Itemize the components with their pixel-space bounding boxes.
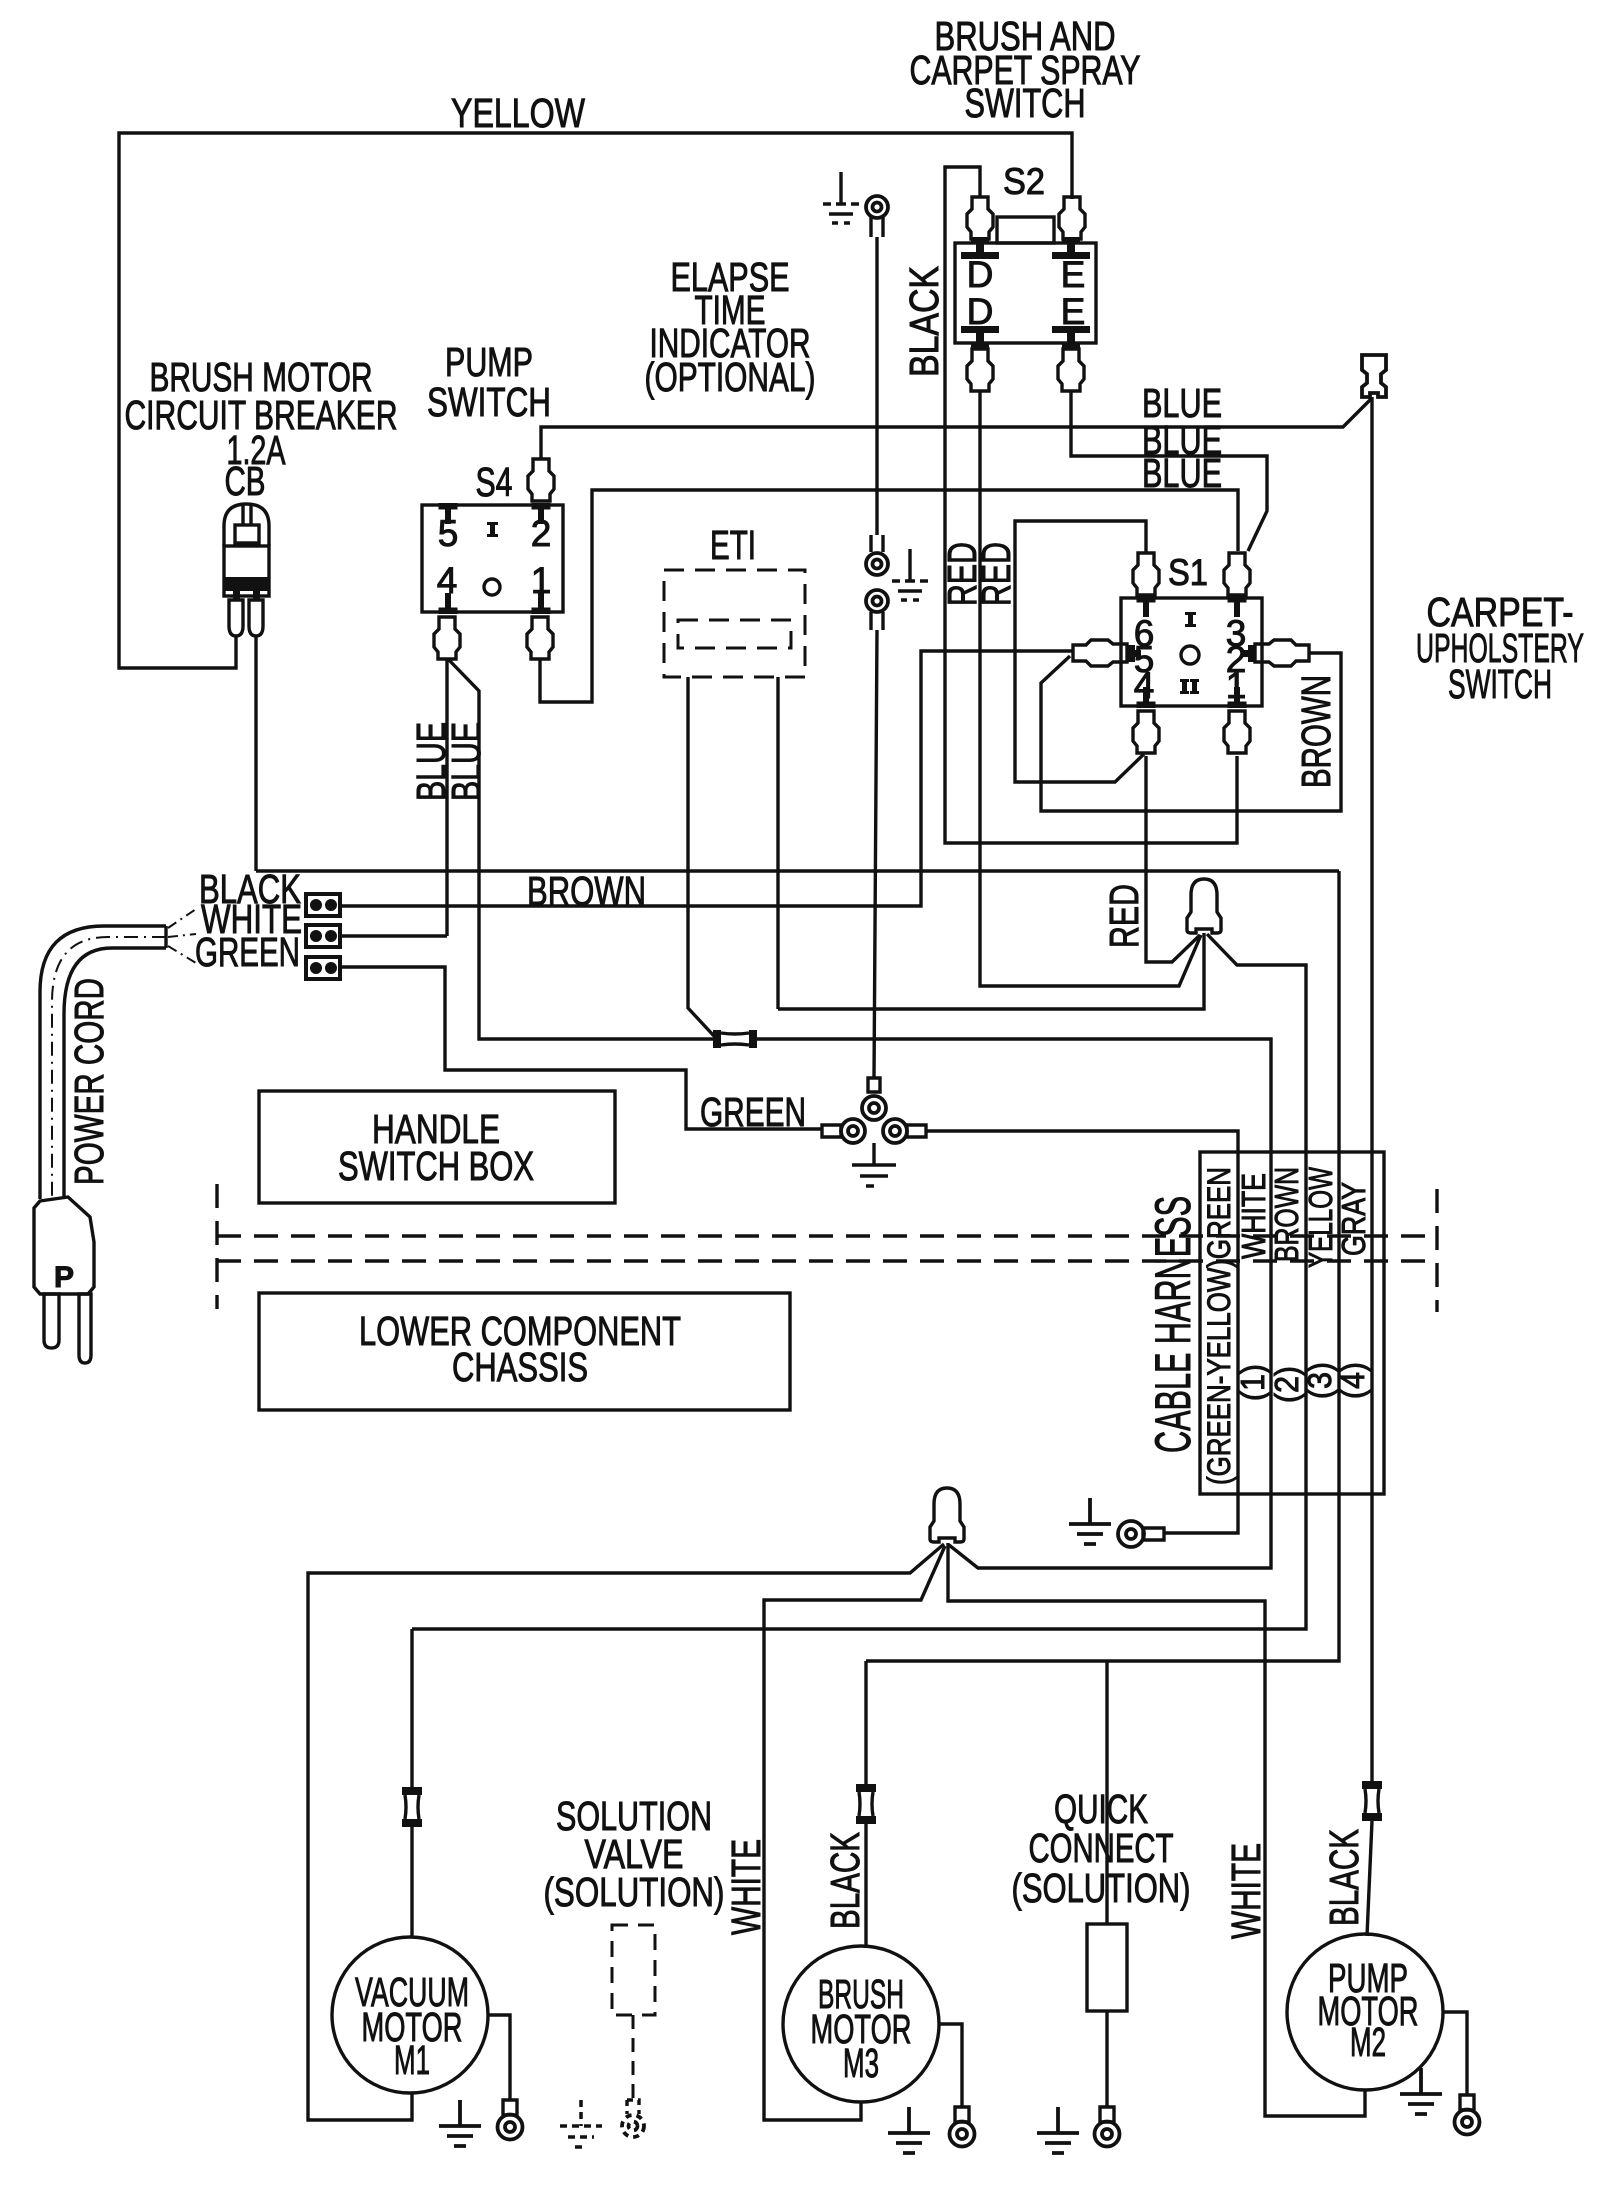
- wire M2 right lead to lug: [1442, 2012, 1467, 2095]
- splice on blue wire: [713, 1030, 757, 1048]
- solution valve dashed wire: [632, 2015, 635, 2100]
- svg-text:(SOLUTION): (SOLUTION): [544, 1869, 725, 1915]
- M2 output ring lug: [1455, 2095, 1480, 2135]
- connector top right (blue/gray junction): [1362, 355, 1386, 397]
- svg-text:CHASSIS: CHASSIS: [452, 1344, 588, 1390]
- svg-text:GREEN: GREEN: [195, 929, 300, 975]
- svg-text:D: D: [967, 291, 994, 332]
- wire red loop pin6: [1015, 521, 1146, 782]
- svg-text:BROWN: BROWN: [527, 868, 646, 914]
- wire nut lead to ETI loop: [778, 933, 1204, 1009]
- svg-text:S4: S4: [476, 459, 513, 505]
- circuit breaker CB: [224, 504, 269, 636]
- pump motor M2: [1287, 1934, 1443, 2090]
- ring lug top (near S2): [866, 196, 888, 237]
- svg-text:5: 5: [438, 513, 459, 554]
- wire junction right lug to harness green-yellow: [926, 1131, 1238, 1533]
- svg-text:BROWN: BROWN: [1268, 1167, 1305, 1262]
- S4 pin4 connector below: [434, 617, 460, 659]
- S1 pin6 top connector: [1133, 553, 1159, 595]
- S1 pin5 left connector: [1073, 640, 1127, 666]
- wire white row to S4 blue: [340, 934, 447, 937]
- svg-text:SWITCH: SWITCH: [965, 80, 1086, 126]
- svg-text:4: 4: [437, 560, 458, 601]
- svg-text:M1: M1: [394, 2037, 430, 2083]
- wire ETI right lead: [776, 677, 779, 1009]
- S4 pin 4 terminal: [439, 593, 458, 614]
- svg-text:GRAY: GRAY: [1335, 1182, 1372, 1256]
- S1 pin4 terminal: [1137, 687, 1156, 708]
- wire S1 pin4 bottom to nut: [1146, 756, 1200, 962]
- svg-text:M2: M2: [1350, 2019, 1386, 2065]
- S2 D bottom connector: [967, 349, 993, 391]
- wire S4 pin4 blue right down: [449, 660, 714, 1039]
- svg-text:BLUE: BLUE: [443, 722, 489, 801]
- svg-text:(1): (1): [1234, 1364, 1271, 1401]
- wire S2 D bottom red: [980, 392, 1201, 986]
- wire YELLOW top bus: [119, 133, 1072, 668]
- S2 terminal E top: [1052, 237, 1090, 259]
- svg-text:BLACK: BLACK: [822, 1832, 868, 1929]
- wire gray long vertical: [1370, 397, 1373, 1781]
- svg-text:SWITCH: SWITCH: [1448, 661, 1552, 707]
- svg-text:SWITCH: SWITCH: [427, 379, 551, 425]
- S1 marking II: [1180, 679, 1199, 694]
- M2 inline connector: [1362, 1781, 1382, 1821]
- M1 inline connector: [402, 1787, 422, 1827]
- solution valve dashed ground: [560, 2100, 602, 2147]
- ground junction earth stub: [852, 1143, 896, 1186]
- ground junction three ring lugs: [822, 1078, 926, 1143]
- S2 terminal E bottom: [1052, 326, 1090, 348]
- svg-text:ETI: ETI: [710, 522, 756, 568]
- wire quick connect tap: [1105, 1661, 1108, 1924]
- S2 E bottom connector: [1058, 349, 1084, 391]
- chassis boundary dashed lines: [215, 1184, 218, 1309]
- M3 output ring lug: [950, 2107, 975, 2147]
- wire M3 connector to motor: [864, 1824, 867, 1948]
- wire green row to ground junction: [340, 967, 822, 1129]
- S1 pin1 terminal: [1228, 687, 1247, 708]
- svg-text:(4): (4): [1334, 1362, 1371, 1399]
- svg-text:(3): (3): [1301, 1362, 1338, 1399]
- S4 pin 2 terminal: [532, 503, 551, 524]
- wire M3 right lead to lug: [938, 2024, 962, 2107]
- wire M1 feed from harness yellow: [410, 1629, 413, 1787]
- terminal block: [306, 894, 340, 979]
- wire ring pair down to ground junction: [874, 630, 877, 1078]
- M2 earth ground: [1400, 2068, 1442, 2114]
- svg-text:S1: S1: [1168, 552, 1208, 593]
- wire harness brown leg: [866, 871, 1339, 1661]
- wire quick connect to lug: [1105, 2011, 1108, 2107]
- svg-text:P: P: [54, 1261, 74, 1294]
- wire M1 right lead to lug: [488, 2015, 510, 2100]
- chassis ground top (near S2): [823, 172, 859, 223]
- svg-text:YELLOW: YELLOW: [1302, 1166, 1339, 1268]
- wire M3 feed from harness gray leg: [864, 1661, 867, 1785]
- wire nut upper: [1187, 879, 1221, 933]
- svg-text:GREEN: GREEN: [700, 1089, 806, 1135]
- wire black power to S1 pin5: [340, 651, 1072, 906]
- power cord: [40, 926, 166, 1199]
- svg-text:BLACK: BLACK: [901, 266, 947, 377]
- S1 pin1 bottom connector: [1224, 711, 1250, 753]
- QC earth ground: [1037, 2107, 1079, 2153]
- handle switch box: [259, 1091, 615, 1203]
- wire M2 connector to motor: [1367, 1821, 1372, 1936]
- switch S4 pump switch: [422, 505, 563, 612]
- chassis ground mid (right of ring pair): [892, 549, 928, 600]
- switch S1 carpet-upholstery switch: [1121, 598, 1262, 706]
- svg-text:1: 1: [531, 560, 552, 601]
- wire S2 D top jog black: [945, 167, 1237, 843]
- S4 marking I: [490, 522, 495, 537]
- leader dashes cord to labels: [168, 909, 196, 963]
- svg-text:BLUE: BLUE: [1142, 450, 1222, 496]
- M1 output ring lug: [498, 2100, 523, 2140]
- svg-text:D: D: [967, 254, 994, 295]
- vacuum motor M1: [332, 1937, 488, 2093]
- S4 pin 1 terminal: [532, 593, 551, 614]
- wire nut lower (white splice): [930, 1488, 964, 1542]
- svg-text:RED: RED: [1101, 884, 1147, 948]
- wire ETI left lead: [688, 677, 714, 1036]
- wire ground lug down to ring pair: [875, 237, 878, 535]
- S1 pin5 terminal: [1127, 645, 1141, 662]
- svg-text:E: E: [1061, 254, 1086, 295]
- svg-text:M3: M3: [843, 2040, 879, 2086]
- S1 marking I: [1188, 612, 1193, 627]
- QC output ring lug: [1095, 2107, 1120, 2147]
- S2 terminal D bottom: [961, 326, 999, 348]
- S4 pin 5 terminal: [439, 503, 458, 524]
- svg-text:BROWN: BROWN: [1293, 675, 1339, 788]
- svg-text:(GREEN-YELLOW)GREEN: (GREEN-YELLOW)GREEN: [1201, 1167, 1237, 1485]
- S2 terminal D top: [961, 237, 999, 259]
- svg-text:YELLOW: YELLOW: [451, 90, 585, 136]
- switch S2 brush and carpet spray switch: [955, 243, 1096, 343]
- brush motor M3: [783, 1946, 939, 2102]
- wire S4 pin4 blue left down: [445, 660, 448, 936]
- solution valve dashed ring lug: [622, 2100, 644, 2137]
- svg-text:WHITE: WHITE: [1235, 1173, 1272, 1259]
- svg-text:CABLE HARNESS: CABLE HARNESS: [1145, 1196, 1201, 1453]
- power plug P: [34, 1197, 94, 1363]
- wire S4 pin1 to S1 pin3: [540, 490, 1238, 702]
- wire brown loop pin2 to pin5: [1041, 653, 1341, 811]
- ring terminal pair mid: [866, 535, 888, 630]
- S1 pin6 terminal: [1137, 596, 1156, 617]
- svg-text:4: 4: [1134, 665, 1155, 706]
- wire M1 connector to motor: [410, 1827, 413, 1938]
- wire nut2 lead pump white: [948, 1543, 1365, 2116]
- M1 earth ground: [439, 2100, 481, 2146]
- ETI dashed box: [664, 570, 805, 677]
- svg-text:1: 1: [1226, 665, 1247, 706]
- svg-text:RED: RED: [973, 542, 1019, 606]
- S1 pin2 right connector: [1255, 640, 1309, 666]
- S1 marking O: [1181, 646, 1199, 664]
- S1 pin3 terminal: [1228, 596, 1247, 617]
- svg-text:POWER CORD: POWER CORD: [66, 978, 112, 1185]
- wire BROWN long bus: [256, 869, 1339, 872]
- svg-text:BLACK: BLACK: [1321, 1829, 1367, 1926]
- S1 pin4 bottom connector: [1133, 711, 1159, 753]
- S2 E top connector: [1059, 197, 1085, 239]
- svg-text:WHITE: WHITE: [1223, 1843, 1269, 1939]
- M3 inline connector: [856, 1784, 876, 1824]
- svg-text:(SOLUTION): (SOLUTION): [1012, 1865, 1191, 1911]
- svg-text:WHITE: WHITE: [723, 1839, 769, 1935]
- svg-text:SWITCH BOX: SWITCH BOX: [338, 1143, 534, 1189]
- lower component chassis box: [259, 1293, 790, 1410]
- solution valve dashed rect: [612, 1925, 655, 2015]
- wire S4 pin2 up to BLUE1: [541, 399, 1371, 458]
- S4 marking O: [484, 579, 500, 595]
- S4 pin1 connector below: [527, 617, 553, 659]
- svg-text:(2): (2): [1268, 1366, 1305, 1403]
- S1 pin3 top connector: [1224, 553, 1250, 595]
- S2 D top connector: [967, 197, 993, 239]
- wire nut2 lead M3 white: [764, 1546, 945, 2120]
- wire S2 E bottom blue2: [1071, 392, 1267, 551]
- svg-text:E: E: [1061, 291, 1086, 332]
- S4 pin2 connector above: [528, 459, 554, 501]
- wire CB right pin to BROWN bus: [254, 636, 257, 871]
- wire nut lead to harness yellow: [412, 934, 1306, 1629]
- wire blue to harness white: [757, 1039, 1271, 1568]
- cable harness box: [1200, 1152, 1384, 1494]
- svg-text:S2: S2: [1003, 161, 1045, 202]
- quick connect rect: [1087, 1924, 1127, 2011]
- svg-text:(OPTIONAL): (OPTIONAL): [645, 354, 816, 400]
- svg-text:2: 2: [531, 513, 552, 554]
- M3 earth ground: [888, 2107, 930, 2153]
- S1 pin2 terminal: [1242, 645, 1256, 662]
- ground + ring lug below harness: [1069, 1498, 1111, 1544]
- svg-text:CB: CB: [225, 458, 266, 504]
- wire nut2 lead M1 bottom loop: [308, 1544, 944, 2120]
